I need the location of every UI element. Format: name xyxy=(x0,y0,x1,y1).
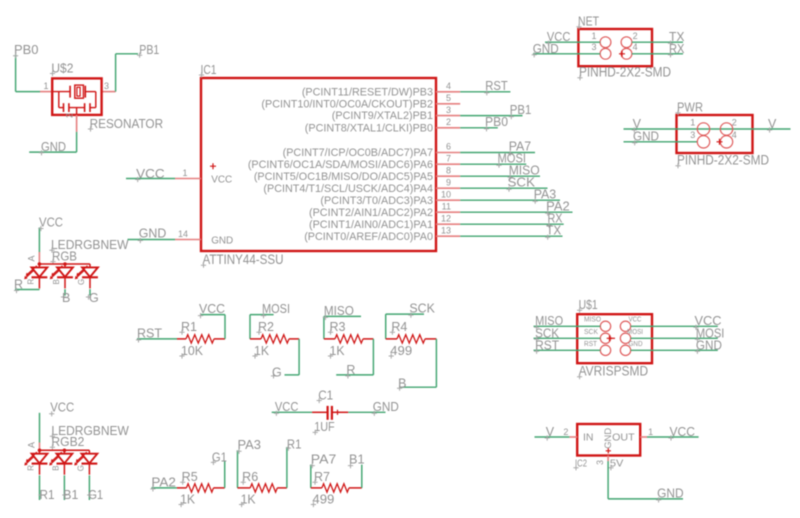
node V label (IC2) xyxy=(545,425,555,441)
wire RGB blue cathode to B xyxy=(64,289,66,296)
wire VCC to RGB2 anode xyxy=(39,413,41,443)
wire GND to NET pin 3 xyxy=(533,53,600,55)
svg-text:(PCINT7/ICP/OC0B/ADC7)PA7: (PCINT7/ICP/OC0B/ADC7)PA7 xyxy=(283,147,433,159)
svg-text:B: B xyxy=(52,465,61,470)
svg-text:RST: RST xyxy=(535,338,559,352)
node SCK label xyxy=(506,175,535,191)
svg-text:(PCINT4/T1/SCL/USCK/ADC4)PA4: (PCINT4/T1/SCL/USCK/ADC4)PA4 xyxy=(263,183,433,195)
node VCC label (RGB) xyxy=(38,216,63,232)
wire RST to R1 xyxy=(137,338,177,340)
node PA2 label xyxy=(545,199,570,215)
svg-text:1: 1 xyxy=(592,31,597,41)
wire IC2 GND pin to GND xyxy=(608,461,683,499)
node GND label (C1) xyxy=(372,400,399,416)
wire R1 to VCC xyxy=(201,315,225,339)
svg-text:GND: GND xyxy=(603,428,614,449)
connector PWR PINHD-2X2-SMD xyxy=(675,101,769,169)
wire PA2 to R5 xyxy=(151,487,177,489)
svg-text:VCC: VCC xyxy=(275,400,299,414)
svg-text:1: 1 xyxy=(690,118,695,128)
svg-text:MOSI: MOSI xyxy=(262,302,290,316)
node B label xyxy=(61,291,70,305)
node PB1 label xyxy=(137,43,159,58)
node V label (PWR left) xyxy=(632,117,642,133)
wire IC1 pin 11 to PA2 xyxy=(460,211,572,213)
svg-text:PA2: PA2 xyxy=(151,475,176,489)
wire resonator pin2 to GND xyxy=(29,132,76,152)
svg-text:3: 3 xyxy=(592,42,597,52)
IC2 pin 2 IN (left stub) xyxy=(563,427,577,437)
svg-text:TX: TX xyxy=(546,223,562,237)
svg-text:R1: R1 xyxy=(40,488,55,502)
node VCC label (IC1 pin1) xyxy=(135,167,165,182)
resistor R7 xyxy=(311,470,362,507)
LED RGB2 (LEDRGBNEW) bottom xyxy=(27,424,129,452)
svg-text:G: G xyxy=(272,366,282,380)
node GND label (U$1 right) xyxy=(695,338,722,354)
node G1 label (RGB2) xyxy=(87,488,103,502)
node GND label (IC1 pin14) xyxy=(138,227,167,243)
wire MISO to U$1 xyxy=(534,325,601,327)
LED R (in RGB) xyxy=(24,264,47,288)
LED G (in RGB) xyxy=(75,264,98,288)
LED G (in RGB2) xyxy=(74,450,97,474)
wire VCC to C1 xyxy=(272,411,312,413)
node MISO label (U$1) xyxy=(534,314,563,330)
svg-text:11: 11 xyxy=(442,201,451,211)
svg-text:V: V xyxy=(546,425,555,439)
wire NET pin 4 to RX xyxy=(632,53,683,55)
svg-text:R: R xyxy=(27,279,36,285)
resonator value label RESONATOR xyxy=(88,116,163,132)
wire IC1 pin 7 to MOSI xyxy=(460,163,526,165)
svg-text:B1: B1 xyxy=(349,452,365,466)
wire V net through PWR pins 1-2 xyxy=(624,128,791,130)
svg-text:8: 8 xyxy=(446,165,451,175)
node VCC label (NET) xyxy=(546,30,571,46)
svg-text:1: 1 xyxy=(182,168,187,178)
svg-text:ATTINY44-SSU: ATTINY44-SSU xyxy=(203,252,284,267)
node GND label (resonator) xyxy=(39,140,66,155)
wire SCK to R4 xyxy=(386,314,424,339)
node MOSI label (R2) xyxy=(261,302,290,318)
node G1 label (R5) xyxy=(211,450,227,465)
svg-text:7: 7 xyxy=(446,153,451,163)
svg-text:GND: GND xyxy=(41,140,66,154)
svg-text:GND: GND xyxy=(657,487,684,501)
node R label xyxy=(14,277,23,293)
svg-text:PWR: PWR xyxy=(677,101,703,115)
node R1 label (RGB2) xyxy=(38,488,54,502)
node G label (R2) xyxy=(271,366,282,380)
svg-text:2: 2 xyxy=(732,118,737,128)
svg-text:GND: GND xyxy=(211,234,233,246)
svg-text:R: R xyxy=(346,363,355,377)
LED B (in RGB2) xyxy=(49,450,72,474)
node PA3 label (R6) xyxy=(236,438,261,454)
wire VCC to NET pin 1 xyxy=(545,41,600,43)
svg-text:GND: GND xyxy=(633,130,659,144)
svg-text:G: G xyxy=(77,465,86,471)
wire R6 to R1 node xyxy=(286,447,288,488)
IC1 pin 13 (TX) xyxy=(304,225,460,242)
wire RGB2 red cathode to R1 xyxy=(39,475,41,500)
svg-text:R: R xyxy=(27,465,36,471)
node MISO label xyxy=(508,163,540,179)
PWR pin circles xyxy=(690,118,736,149)
svg-text:4: 4 xyxy=(446,81,451,91)
wire RGB2 green cathode to G1 xyxy=(88,475,90,500)
svg-text:(PCINT0/AREF/ADC0)PA0: (PCINT0/AREF/ADC0)PA0 xyxy=(304,231,433,243)
wire IC1 pin 9 to SCK xyxy=(460,187,547,189)
resistor R5 xyxy=(177,470,225,507)
resistor R1 xyxy=(177,320,225,359)
resistor R4 xyxy=(386,320,437,359)
svg-text:V: V xyxy=(768,117,777,131)
IC1 pin 6 (PA7) xyxy=(283,142,461,159)
wire GND to IC1 pin 14 xyxy=(128,239,176,241)
svg-text:PA7: PA7 xyxy=(311,452,337,466)
node B1 label (R7) xyxy=(348,452,365,468)
svg-text:G1: G1 xyxy=(88,488,103,502)
svg-text:PB1: PB1 xyxy=(510,103,532,117)
svg-text:MISO: MISO xyxy=(584,315,601,324)
svg-text:RST: RST xyxy=(584,339,598,348)
svg-text:GND: GND xyxy=(373,400,399,414)
wire IC2 OUT to VCC xyxy=(647,436,699,438)
wire IC1 pin 6 to PA7 xyxy=(460,152,535,154)
node PB0 label xyxy=(484,115,508,131)
wire R7 to B1 node xyxy=(361,465,363,488)
wire GND to PWR pin 3 xyxy=(624,141,698,143)
wire IC1 pin 2 to PB0 xyxy=(460,127,498,129)
svg-text:G1: G1 xyxy=(212,450,227,464)
node MOSI label xyxy=(496,151,526,167)
wire IC1 pin 8 to MISO xyxy=(460,175,540,177)
svg-text:A: A xyxy=(27,255,37,261)
svg-text:(PCINT10/INT0/OC0A/CKOUT)PB2: (PCINT10/INT0/OC0A/CKOUT)PB2 xyxy=(261,98,433,110)
wire U$1 to VCC (right) xyxy=(631,325,718,327)
LED R (in RGB2) xyxy=(24,450,47,474)
svg-text:GND: GND xyxy=(696,338,722,352)
svg-text:GND: GND xyxy=(629,339,643,348)
IC1 pin 1 VCC (left) xyxy=(175,168,201,179)
wire R4 to B xyxy=(399,339,436,387)
IC1 pin 12 (RX) xyxy=(309,213,460,230)
svg-text:A: A xyxy=(27,442,37,448)
node R1 label (R6) xyxy=(286,438,302,452)
node TX label xyxy=(668,30,685,46)
svg-text:IN: IN xyxy=(583,431,594,443)
svg-text:(PCINT3/T0/ADC3)PA3: (PCINT3/T0/ADC3)PA3 xyxy=(320,195,433,207)
svg-text:3: 3 xyxy=(104,81,109,91)
svg-text:3: 3 xyxy=(690,130,695,140)
svg-text:2: 2 xyxy=(563,427,568,437)
node VCC label (U$1) xyxy=(693,314,721,330)
svg-text:MOSI: MOSI xyxy=(627,327,643,336)
svg-text:VCC: VCC xyxy=(629,315,642,324)
wire IC1 pin 10 to PA3 xyxy=(460,199,560,201)
wire PA3 to R6 xyxy=(237,450,239,488)
wire C1 to GND xyxy=(348,411,385,413)
svg-text:(PCINT9/XTAL2)PB1: (PCINT9/XTAL2)PB1 xyxy=(332,110,433,122)
IC1 pin 9 (SCK) xyxy=(263,177,460,194)
svg-text:10: 10 xyxy=(441,189,451,199)
svg-text:(PCINT2/AIN1/ADC2)PA2: (PCINT2/AIN1/ADC2)PA2 xyxy=(309,207,433,219)
svg-text:R1: R1 xyxy=(287,438,302,452)
node MOSI label (U$1 right) xyxy=(695,326,725,342)
node RST label xyxy=(484,79,508,95)
node VCC label (R1) xyxy=(198,302,225,318)
svg-text:G: G xyxy=(89,291,99,305)
wire U$1 to GND (right) xyxy=(631,349,718,351)
svg-text:1: 1 xyxy=(648,427,653,437)
node B label (R4) xyxy=(397,377,406,391)
wire VCC to RGB anode xyxy=(38,228,40,253)
svg-text:(PCINT5/OC1B/MISO/DO/ADC5)PA5: (PCINT5/OC1B/MISO/DO/ADC5)PA5 xyxy=(254,171,433,183)
wire resonator pin3 to PB1 xyxy=(116,54,138,92)
node GND label (PWR) xyxy=(632,130,659,146)
node VCC label (RGB2) xyxy=(49,401,74,417)
svg-text:2: 2 xyxy=(65,113,75,118)
node V label (PWR right) xyxy=(767,117,777,133)
svg-text:SCK: SCK xyxy=(584,327,598,336)
wire RGB red cathode to R xyxy=(15,288,39,290)
capacitor C1 1UF xyxy=(312,388,348,435)
node PA7 label xyxy=(508,140,532,156)
svg-text:VCC: VCC xyxy=(199,302,225,316)
wire IC1 pin 4 to RST xyxy=(460,91,510,93)
node TX label xyxy=(545,223,562,239)
svg-text:(PCINT1/AIN0/ADC1)PA1: (PCINT1/AIN0/ADC1)PA1 xyxy=(309,219,433,231)
node G label xyxy=(86,291,99,305)
IC2 pin 3 GND (bottom stub) xyxy=(607,456,609,462)
node B1 label (RGB2) xyxy=(62,488,78,502)
node RX label xyxy=(668,42,685,58)
svg-text:VCC: VCC xyxy=(39,216,63,230)
svg-text:B: B xyxy=(52,279,61,284)
svg-text:5: 5 xyxy=(446,93,451,103)
connector NET PINHD-2X2-SMD xyxy=(576,15,671,81)
svg-text:4: 4 xyxy=(732,130,737,140)
svg-text:PINHD-2X2-SMD: PINHD-2X2-SMD xyxy=(579,65,671,80)
svg-text:2: 2 xyxy=(446,117,451,127)
svg-text:14: 14 xyxy=(178,229,188,239)
svg-text:12: 12 xyxy=(441,213,451,223)
IC1 pin 8 (MISO) xyxy=(254,165,460,182)
svg-text:2: 2 xyxy=(633,31,638,41)
IC1 pin 7 (MOSI) xyxy=(248,153,460,170)
svg-text:B: B xyxy=(398,377,406,391)
LED RGB (LEDRGBNEW) top xyxy=(27,238,129,266)
node SCK label (R4) xyxy=(408,302,435,318)
svg-text:VCC: VCC xyxy=(136,167,165,181)
svg-text:1: 1 xyxy=(43,81,48,91)
wire MISO to R3 xyxy=(324,316,361,339)
svg-text:B1: B1 xyxy=(63,488,78,502)
svg-text:(PCINT6/OC1A/SDA/MOSI/ADC6)PA6: (PCINT6/OC1A/SDA/MOSI/ADC6)PA6 xyxy=(248,159,433,171)
svg-text:RX: RX xyxy=(669,42,685,56)
IC1 pin 14 GND (left) xyxy=(175,229,201,240)
node PB1 label xyxy=(509,103,532,119)
IC1 pin 11 (PA2) xyxy=(309,201,460,218)
svg-text:SCK: SCK xyxy=(508,175,536,189)
IC1 pin 4 (RST) xyxy=(302,81,460,98)
svg-text:SCK: SCK xyxy=(409,302,435,316)
wire VCC to IC1 pin 1 xyxy=(126,178,175,180)
svg-text:RST: RST xyxy=(137,326,162,340)
wire RST to U$1 xyxy=(534,349,601,351)
node RST label (R1) xyxy=(136,326,162,342)
wire IC1 pin 13 to TX xyxy=(460,235,562,237)
svg-text:13: 13 xyxy=(441,225,451,235)
wire PA7 to R7 xyxy=(310,465,312,488)
svg-text:GND: GND xyxy=(139,227,167,241)
svg-text:VCC: VCC xyxy=(670,425,696,439)
svg-text:9: 9 xyxy=(446,177,451,187)
wire RGB2 blue cathode to B1 xyxy=(63,475,65,500)
svg-text:PA3: PA3 xyxy=(238,438,262,452)
resistor R6 xyxy=(238,470,287,507)
wire RGB green cathode to G xyxy=(89,289,91,296)
node PA2 label (R5) xyxy=(150,475,176,491)
wire U$1 to MOSI (right) xyxy=(631,337,718,339)
node MISO label (R3) xyxy=(323,304,354,320)
resistor R2 xyxy=(250,320,299,359)
svg-text:B: B xyxy=(62,291,70,305)
node R label (R3) xyxy=(345,363,355,379)
svg-text:PINHD-2X2-SMD: PINHD-2X2-SMD xyxy=(677,153,769,168)
svg-text:MISO: MISO xyxy=(324,304,354,318)
wire R5 to G1 xyxy=(224,461,226,488)
svg-text:PB1: PB1 xyxy=(139,43,159,57)
wire IC1 pin 3 to PB1 xyxy=(460,115,522,117)
svg-text:RGB: RGB xyxy=(52,249,77,263)
node RX label xyxy=(546,211,563,227)
node PA3 label xyxy=(533,187,557,203)
svg-text:VCC: VCC xyxy=(50,401,74,415)
node GND label (IC2) xyxy=(656,487,684,503)
LED B (in RGB) xyxy=(50,264,73,288)
wire SCK to U$1 xyxy=(534,337,601,339)
svg-text:3: 3 xyxy=(595,460,605,465)
svg-text:GND: GND xyxy=(533,42,559,56)
node VCC label (C1) xyxy=(274,400,299,416)
node SCK label (U$1) xyxy=(534,326,560,342)
svg-text:(PCINT8/XTAL1/CLKI)PB0: (PCINT8/XTAL1/CLKI)PB0 xyxy=(305,122,433,134)
svg-text:G: G xyxy=(77,279,86,285)
IC U1 ATTINY44-SSU body xyxy=(199,63,436,268)
IC1 pin 2 (PB0) xyxy=(305,117,460,134)
svg-text:RESONATOR: RESONATOR xyxy=(90,116,164,131)
node PB0 label xyxy=(13,43,39,58)
voltage regulator IC2 body xyxy=(573,424,640,470)
wire NET pin 2 to TX xyxy=(632,41,683,43)
svg-text:6: 6 xyxy=(446,142,451,152)
svg-text:AVRISPSMD: AVRISPSMD xyxy=(579,364,649,379)
resistor R3 xyxy=(324,320,374,359)
svg-text:OUT: OUT xyxy=(612,431,635,443)
svg-text:RGB2: RGB2 xyxy=(51,435,84,449)
svg-text:PB0: PB0 xyxy=(485,115,508,129)
svg-text:RST: RST xyxy=(485,79,508,93)
svg-text:3: 3 xyxy=(446,105,451,115)
svg-text:R: R xyxy=(14,277,23,291)
IC1 pin 10 (PA3) xyxy=(320,189,460,206)
wire MOSI to R2 xyxy=(250,315,274,339)
resonator U$2 xyxy=(40,62,116,132)
IC2 pin 1 OUT (right stub) xyxy=(640,427,653,437)
svg-text:(PCINT11/RESET/DW)PB3: (PCINT11/RESET/DW)PB3 xyxy=(302,86,433,98)
wire net PB0 to resonator pin 1 xyxy=(16,55,40,92)
svg-text:4: 4 xyxy=(633,42,638,52)
IC1 pin 5 (None) xyxy=(261,93,460,110)
svg-text:PB0: PB0 xyxy=(14,43,39,57)
IC1 pin 3 (PB1) xyxy=(332,105,460,122)
svg-text:VCC: VCC xyxy=(211,174,232,186)
node PA7 label (R7) xyxy=(310,452,337,468)
node VCC label (IC2) xyxy=(668,425,695,441)
connector U$1 AVRISPSMD xyxy=(577,298,652,379)
node GND label (NET) xyxy=(532,42,559,58)
wire R3 to R xyxy=(336,339,373,375)
wire R2 to G xyxy=(285,339,300,375)
wire IC1 pin 12 to RX xyxy=(460,223,564,225)
node RST label (U$1) xyxy=(534,338,559,354)
wire V to IC2 IN xyxy=(535,436,570,438)
